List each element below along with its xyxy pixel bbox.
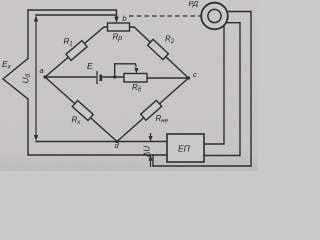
wire jog down to under-box line	[152, 155, 154, 166]
bridge arm a-d (to Rx)	[45, 77, 117, 142]
wire battery to junction	[102, 76, 125, 78]
wire junction loop over Rb	[115, 64, 136, 77]
motor RD outer circle	[201, 3, 228, 30]
wire bottom inner line through node d to amplifier	[36, 141, 167, 143]
svg-text:b: b	[123, 14, 127, 23]
svg-text:с: с	[193, 70, 197, 79]
svg-text:ΔU: ΔU	[143, 146, 152, 158]
wiper arrow of Rp (drop from node b wire)	[114, 17, 118, 24]
battery E long plate	[96, 71, 98, 84]
dimension arrows dU at amplifier input	[150, 133, 152, 141]
wire motor bottom to amplifier output 1	[204, 25, 224, 144]
wire right outer vertical up to motor stub	[227, 12, 251, 167]
voltage arrow Ud vertical with both arrowheads	[35, 17, 37, 139]
wire top outer line from left corner to wiper drop	[28, 10, 117, 18]
svg-text:ЕП: ЕП	[178, 144, 191, 154]
wire left outer vertical upper segment	[27, 10, 29, 59]
resistor Rx body	[72, 101, 93, 121]
motor RD inner circle	[208, 9, 221, 22]
svg-text:а: а	[40, 66, 44, 75]
resistor Rb body	[124, 74, 147, 83]
svg-text:Е: Е	[87, 61, 93, 71]
node a dot	[43, 75, 46, 78]
resistor R1 body	[66, 41, 87, 61]
junction dot battery branch	[113, 75, 116, 78]
wire motor stub 2 down to amplifier output	[204, 23, 240, 156]
wire left outer vertical lower segment	[27, 99, 29, 155]
bridge arm b-c right (to R2)	[130, 27, 189, 78]
potentiometer Rp body	[108, 23, 130, 31]
bridge arm a-b left (to R1)	[45, 27, 108, 77]
amplifier EP box	[167, 134, 204, 162]
bridge arm d-c (to Rne)	[117, 78, 189, 142]
resistor R2 body	[148, 39, 169, 59]
node d dot	[115, 140, 118, 143]
wire Rb to node c	[147, 77, 189, 79]
resistor Rne body	[141, 100, 162, 120]
wire battery branch left	[45, 76, 96, 78]
battery E short thick plate	[100, 75, 103, 82]
wire top inner extension line (Uд reference)	[36, 14, 116, 16]
wire under-box line to right vertical	[153, 165, 251, 167]
node c dot	[187, 76, 190, 79]
wiper arrow of Rb	[134, 68, 138, 74]
dashed mechanical link from wiper b to motor	[129, 15, 201, 17]
wire bottom outer line to amplifier input	[28, 154, 167, 156]
svg-text:РД: РД	[189, 0, 199, 8]
source Ex chevron (EMF in series, pointing left)	[3, 59, 28, 100]
